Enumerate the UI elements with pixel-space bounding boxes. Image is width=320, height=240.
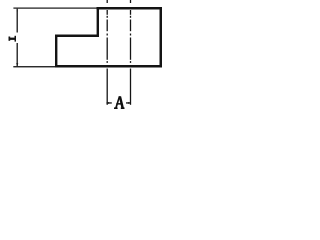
label L (rotated 90deg, drawn as shapes) (9, 36, 17, 42)
arrowhead A left (107, 102, 110, 104)
arrowhead L bottom (16, 63, 18, 66)
part right edge (160, 7, 163, 68)
centerline left (107, 0, 108, 105)
part top edge (97, 7, 163, 10)
arrowhead A right (128, 102, 131, 104)
dimension tick A right (126, 102, 131, 103)
part bottom edge (55, 65, 162, 68)
part lower-left edge (55, 35, 57, 68)
centerline right (130, 0, 131, 105)
part step edge (55, 35, 99, 38)
arrowhead L top (16, 9, 18, 11)
part upper-left edge (97, 7, 99, 37)
top extension line (13, 8, 96, 9)
bottom extension line (13, 66, 55, 67)
dimension line L upper segment (17, 9, 18, 33)
dimension tick A left (106, 102, 111, 103)
dimension line L lower segment (17, 43, 18, 66)
label A (drawn as shapes) (114, 96, 125, 109)
